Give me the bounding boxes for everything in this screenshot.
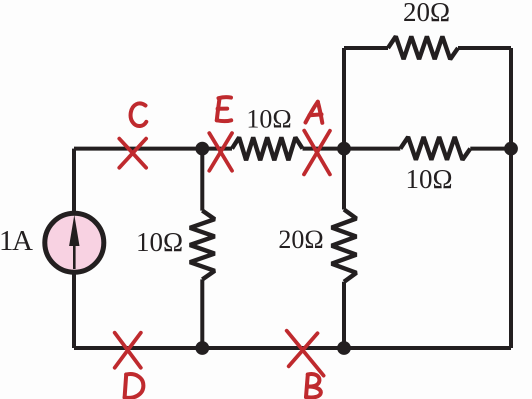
svg-text:20Ω: 20Ω — [403, 0, 450, 27]
svg-text:1A: 1A — [0, 225, 33, 257]
svg-text:10Ω: 10Ω — [405, 164, 452, 194]
svg-text:20Ω: 20Ω — [278, 225, 323, 254]
svg-text:10Ω: 10Ω — [136, 227, 183, 257]
svg-text:10Ω: 10Ω — [246, 105, 291, 134]
